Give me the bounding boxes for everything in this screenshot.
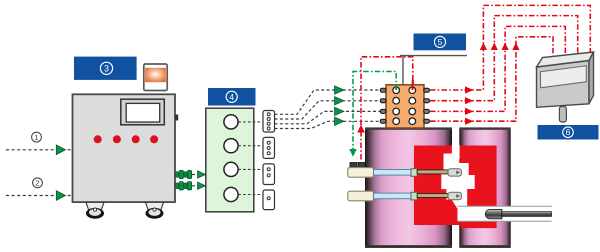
node 1	[32, 132, 42, 142]
connector pins left	[380, 88, 386, 123]
terminal strip 2	[263, 137, 275, 158]
wire input line 2	[6, 191, 72, 201]
red thermocouple loop row 2	[430, 16, 578, 105]
heater terminal screws	[350, 163, 365, 168]
terminal strip 4	[263, 190, 275, 210]
sprue inlet	[452, 145, 460, 159]
wires sockets to terminal strips	[238, 122, 263, 195]
junction box U6	[537, 52, 594, 122]
label 4	[208, 88, 256, 106]
mold plate right	[459, 127, 510, 247]
mold plate left	[365, 127, 452, 247]
green heater power wire	[349, 72, 396, 157]
red thermocouple loop row 4	[430, 37, 553, 125]
heater element 1	[348, 168, 462, 178]
injection barrel	[485, 209, 551, 218]
terminal strip 3	[263, 164, 275, 185]
svg-text:6: 6	[566, 127, 571, 137]
cabinet indicator LEDs	[94, 135, 158, 143]
plug symbol 1	[176, 170, 192, 178]
node 2	[33, 178, 43, 188]
wire fan line 4	[275, 117, 381, 128]
svg-text:5: 5	[438, 37, 443, 47]
injection channel	[458, 206, 552, 221]
distribution panel U4	[206, 108, 254, 212]
label 6	[538, 125, 599, 140]
wire fan line 2	[275, 97, 381, 119]
nozzle melt channel	[441, 138, 474, 210]
label 5 leader	[400, 56, 467, 84]
svg-text:4: 4	[229, 92, 234, 102]
red thermocouple loop row 1	[430, 5, 590, 93]
svg-text:2: 2	[35, 179, 39, 188]
wire fan line 1	[275, 86, 381, 115]
wire fan line 3	[275, 107, 381, 124]
wire green tail into socket	[395, 84, 397, 90]
connector sockets	[393, 87, 416, 125]
svg-text:3: 3	[104, 64, 109, 74]
panel sockets	[224, 115, 238, 202]
cabinet U3 body	[73, 94, 176, 202]
plug symbol 2	[176, 182, 192, 190]
cabinet display	[121, 99, 165, 125]
cabinet side knob	[175, 115, 178, 121]
red sensor feedback wire	[357, 57, 413, 160]
wire red tail into socket	[412, 84, 414, 90]
signal lamp	[144, 64, 167, 91]
heater element 2	[348, 191, 462, 201]
label 5	[414, 34, 467, 51]
red thermocouple loop row 3	[430, 26, 565, 115]
label 3	[74, 57, 137, 80]
wire cabinet to panel 2	[192, 182, 208, 189]
connector block U5	[386, 85, 424, 128]
connector pins right	[424, 88, 430, 123]
wire input line 1	[6, 145, 72, 155]
caster right	[146, 202, 164, 218]
terminal strip 1	[263, 111, 275, 133]
svg-text:1: 1	[34, 133, 38, 142]
manifold red block right	[461, 146, 497, 229]
manifold red block left	[414, 146, 461, 226]
caster left	[86, 202, 104, 218]
wire cabinet to panel 1	[192, 171, 208, 178]
